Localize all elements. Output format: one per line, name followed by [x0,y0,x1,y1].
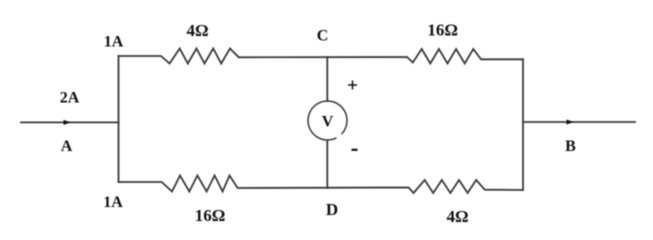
svg-text:16Ω: 16Ω [427,21,458,40]
svg-text:4Ω: 4Ω [186,21,208,40]
svg-text:D: D [326,200,338,219]
svg-text:C: C [317,28,329,45]
svg-text:V: V [322,114,334,131]
svg-text:B: B [565,138,576,155]
svg-text:16Ω: 16Ω [195,206,226,225]
svg-text:1A: 1A [104,34,124,51]
svg-text:1A: 1A [103,194,123,211]
svg-text:2A: 2A [60,90,80,107]
svg-text:4Ω: 4Ω [446,207,468,226]
svg-text:A: A [61,138,73,155]
